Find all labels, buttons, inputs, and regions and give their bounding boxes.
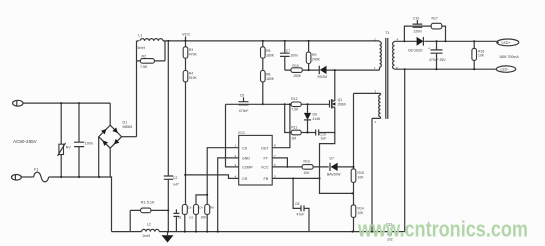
svg-text:R13: R13 — [304, 160, 310, 164]
svg-text:VCC: VCC — [182, 32, 191, 37]
wire bridge top vertex — [109, 103, 111, 125]
diode D5 RS2M — [318, 66, 380, 79]
svg-text:D8 US2D: D8 US2D — [408, 49, 423, 53]
svg-text:R1 5.1K: R1 5.1K — [141, 201, 155, 205]
wire secondary out top — [395, 40, 497, 42]
svg-text:L2: L2 — [147, 222, 151, 226]
wire clamp bottom — [285, 69, 320, 71]
svg-text:R14: R14 — [358, 207, 364, 211]
fuse F1 — [21, 168, 111, 182]
resistor R11 — [291, 125, 301, 140]
node ac-top-c1 — [78, 102, 80, 104]
wire Q1 drain — [334, 70, 336, 101]
svg-text:C8: C8 — [295, 202, 299, 206]
wire aux/CS vertical — [353, 93, 355, 231]
node l2-right — [167, 231, 169, 233]
resistor R8 bottom row 3 — [201, 194, 215, 232]
node r1-right — [167, 209, 169, 211]
diode D6 — [304, 103, 320, 132]
primary winding — [379, 42, 381, 68]
svg-text:C2: C2 — [173, 176, 177, 180]
svg-text:R8: R8 — [210, 205, 214, 209]
connector J1 AC input top — [13, 100, 23, 106]
svg-text:R6: R6 — [266, 73, 270, 77]
svg-text:47uF: 47uF — [297, 213, 305, 217]
svg-text:220N: 220N — [414, 30, 423, 34]
transistor Q1 MOSFET — [330, 98, 346, 108]
wire OUT pin8 — [238, 147, 240, 149]
resistor R14 — [351, 205, 364, 218]
secondary winding — [393, 42, 395, 69]
svg-text:2mH: 2mH — [143, 234, 151, 238]
svg-text:AC50-265V: AC50-265V — [13, 139, 38, 144]
wire bridge bottom vertex down — [110, 148, 111, 232]
svg-text:C4: C4 — [199, 205, 203, 209]
wire bridge left vertex to AC bottom — [98, 137, 100, 177]
svg-text:LED+: LED+ — [502, 41, 511, 45]
node rail-r5 — [262, 40, 264, 42]
capacitor C9 output — [428, 41, 446, 69]
wire pin7 — [272, 158, 287, 167]
core — [386, 38, 388, 119]
svg-text:CR: CR — [242, 177, 248, 181]
ground — [162, 235, 174, 242]
svg-text:C5: C5 — [240, 94, 244, 98]
svg-text:1uF: 1uF — [321, 137, 327, 141]
wire bottom return to L2/R1 — [112, 210, 131, 231]
resistor R6 — [261, 58, 275, 104]
wire aux top lead — [354, 92, 381, 94]
svg-text:u1: u1 — [190, 216, 194, 220]
svg-text:R2: R2 — [142, 54, 147, 58]
label VCC — [182, 32, 191, 41]
svg-text:R12: R12 — [291, 97, 297, 101]
varistor RV — [58, 103, 72, 177]
connector LED+ — [497, 39, 519, 46]
svg-text:4148: 4148 — [313, 117, 321, 121]
node ac-top-rv — [60, 102, 62, 104]
transformer T1 — [374, 31, 399, 124]
wire pin4 CR — [185, 175, 239, 179]
svg-text:COMP: COMP — [242, 166, 253, 170]
wire Q1 source path — [320, 107, 353, 193]
capacitor C7 — [280, 40, 298, 70]
wire Y-cap vertical — [404, 69, 406, 231]
connector J2 AC input bottom — [12, 174, 22, 180]
node rail-c2 — [167, 40, 169, 42]
svg-text:473nF: 473nF — [239, 109, 249, 113]
resistor R4 — [183, 58, 197, 204]
resistor R10 — [291, 64, 302, 78]
wire R11 left drop — [285, 104, 291, 132]
resistor R3 — [183, 41, 197, 58]
IC U1 — [235, 131, 277, 185]
svg-text:RS2M: RS2M — [318, 75, 328, 79]
resistor R5 — [261, 41, 275, 58]
svg-text:910K: 910K — [189, 76, 198, 80]
resistor R1 — [130, 201, 168, 213]
svg-text:470uF 35V: 470uF 35V — [429, 58, 446, 62]
svg-text:R16: R16 — [478, 49, 484, 53]
svg-text:C10: C10 — [413, 16, 419, 20]
node rail-r3 — [185, 40, 187, 42]
svg-text:R3: R3 — [189, 48, 193, 52]
svg-text:D6: D6 — [313, 113, 317, 117]
svg-text:R11: R11 — [291, 125, 297, 129]
svg-text:5mH: 5mH — [138, 46, 146, 50]
resistor R15 — [351, 169, 364, 183]
capacitor C4 bottom row 2 — [190, 195, 208, 232]
svg-text:10K: 10K — [478, 54, 485, 58]
svg-text:240K: 240K — [312, 57, 321, 61]
node mid-divider — [262, 103, 264, 105]
svg-text:L1: L1 — [138, 34, 142, 38]
node ac-bot-c1 — [78, 176, 80, 178]
capacitor C8 — [295, 202, 304, 217]
svg-text:R15: R15 — [358, 171, 364, 175]
node r12-left — [284, 103, 286, 105]
svg-text:F1: F1 — [34, 168, 38, 172]
resistor R12 gate — [291, 97, 301, 111]
wire pin5 FB — [272, 177, 319, 179]
svg-text:GND: GND — [242, 157, 250, 161]
svg-text:C6: C6 — [188, 205, 192, 209]
resistor R16 — [472, 41, 485, 69]
resistor R13 — [302, 160, 313, 175]
inductor L2 — [130, 222, 168, 238]
wire mid horizontal (COMP/gate line) — [226, 103, 330, 105]
capacitor C6 bottom row 1 — [178, 205, 192, 232]
diode D8 output — [408, 37, 423, 53]
svg-text:www.cntronics.com: www.cntronics.com — [357, 217, 528, 242]
svg-text:MB6S: MB6S — [123, 125, 133, 129]
resistor R9 clamp — [306, 40, 320, 70]
capacitor C1 — [74, 103, 93, 177]
svg-text:R9: R9 — [312, 53, 316, 57]
capacitor C2 bulk — [164, 41, 179, 232]
svg-text:10K: 10K — [304, 171, 311, 175]
svg-text:u47: u47 — [173, 183, 179, 187]
diode D7 BAV20W — [327, 157, 341, 177]
capacitor C11 Y-cap — [386, 222, 393, 241]
svg-text:R4: R4 — [189, 72, 193, 76]
svg-text:R17: R17 — [432, 17, 438, 21]
svg-text:OUT: OUT — [261, 146, 269, 150]
connector LED- — [496, 66, 515, 72]
svg-text:180K: 180K — [266, 53, 275, 57]
resistor R2 — [137, 41, 166, 69]
svg-text:VCC: VCC — [261, 166, 269, 170]
svg-text:180K: 180K — [266, 77, 275, 81]
svg-text:470K: 470K — [189, 52, 198, 56]
capacitor C10b — [301, 130, 335, 141]
wire bridge right vertex — [122, 136, 137, 138]
svg-text:BAV20W: BAV20W — [327, 172, 341, 176]
svg-text:Q1: Q1 — [338, 98, 343, 102]
svg-text:100n: 100n — [290, 54, 298, 58]
node ac-bot-rv — [60, 176, 62, 178]
svg-text:7.5K: 7.5K — [140, 65, 148, 69]
snubber C10/R17 — [404, 16, 445, 41]
svg-text:10K: 10K — [358, 175, 365, 179]
svg-text:D1: D1 — [123, 121, 128, 125]
capacitor C5 — [239, 94, 249, 113]
wire bottom rail — [168, 231, 404, 233]
svg-text:RV: RV — [66, 146, 72, 150]
svg-text:10K: 10K — [358, 211, 365, 215]
inductor L1 — [137, 34, 380, 50]
svg-text:C10: C10 — [320, 132, 326, 136]
svg-text:+: + — [428, 47, 430, 51]
wire pin2 GND — [218, 158, 239, 232]
svg-text:C7: C7 — [286, 49, 290, 53]
capacitor C3 stub — [173, 209, 179, 231]
svg-text:LED-: LED- — [501, 68, 510, 72]
aux winding — [379, 95, 381, 117]
svg-text:18W 700mA: 18W 700mA — [499, 55, 519, 59]
wire COMP drop — [226, 104, 239, 167]
svg-text:1: 1 — [375, 120, 377, 124]
wire secondary out bottom — [395, 68, 497, 70]
svg-text:CS: CS — [242, 146, 248, 150]
svg-text:2N60: 2N60 — [338, 103, 346, 107]
svg-text:150K: 150K — [293, 74, 302, 78]
svg-text:7.5K: 7.5K — [291, 108, 299, 112]
node ac-bot-bridge — [98, 176, 100, 178]
svg-text:D7: D7 — [330, 157, 334, 161]
wire pin1 CS — [207, 148, 239, 205]
wire L1 left down to bridge — [136, 41, 138, 137]
bridge rectifier D1 — [99, 121, 133, 148]
wire AC line top — [23, 102, 110, 104]
svg-text:T1: T1 — [385, 31, 389, 35]
wire pin6 CS sense line — [272, 166, 353, 168]
svg-text:R5: R5 — [266, 49, 270, 53]
svg-text:FB: FB — [264, 177, 269, 181]
svg-text:20K: 20K — [201, 216, 208, 220]
wire aux bottom lead — [372, 118, 381, 231]
svg-text:VCC: VCC — [238, 131, 246, 135]
svg-text:100n: 100n — [85, 141, 93, 145]
svg-text:1M: 1M — [291, 136, 296, 140]
svg-text:1: 1 — [374, 66, 376, 70]
